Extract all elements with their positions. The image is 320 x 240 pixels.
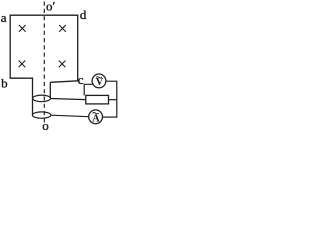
wire: coil right edge dc (77, 15, 79, 82)
field mark x top-right (59, 25, 66, 32)
svg-text:a: a (1, 10, 7, 25)
ammeter A circle (89, 110, 103, 124)
wire: coil left edge ab (9, 15, 11, 79)
svg-text:c: c (78, 72, 84, 87)
ammeter A glyph with AC tilde (92, 113, 100, 125)
axis o-o' dashed line (43, 2, 45, 123)
wire: upper ring to resistor R left (51, 99, 86, 100)
wire: coil lead right, down to upper slip ring (49, 82, 51, 98)
wire: resistor right lead to right bus (109, 99, 117, 101)
wire: ammeter right lead to right bus (103, 116, 118, 118)
wire: coil top edge ad (10, 14, 79, 16)
wire: lower ring to ammeter left (51, 115, 89, 117)
slip ring upper (33, 95, 51, 102)
field mark x top-left (19, 25, 26, 32)
field mark x bottom-right (59, 61, 66, 68)
wire: voltmeter left lead down to resistor left node (84, 84, 93, 95)
wire: coil lead left, down to lower slip ring (32, 78, 34, 116)
svg-text:V: V (96, 77, 104, 88)
wire: voltmeter right lead to right bus (106, 81, 117, 117)
wire: coil bottom-left segment b side (10, 77, 33, 79)
voltmeter V circle (92, 74, 106, 88)
svg-text:o: o (42, 118, 49, 133)
slip ring lower (32, 112, 50, 118)
resistor R box (86, 95, 109, 104)
voltmeter V glyph with AC tilde (96, 77, 104, 88)
wire: coil bottom-right segment c side (slightly sloped) (50, 81, 78, 83)
coil abcd frame (10, 15, 79, 116)
field mark x bottom-left (19, 61, 26, 68)
svg-text:o′: o′ (46, 0, 56, 14)
svg-text:b: b (1, 75, 8, 90)
svg-text:d: d (80, 7, 87, 22)
svg-text:A: A (92, 113, 100, 124)
